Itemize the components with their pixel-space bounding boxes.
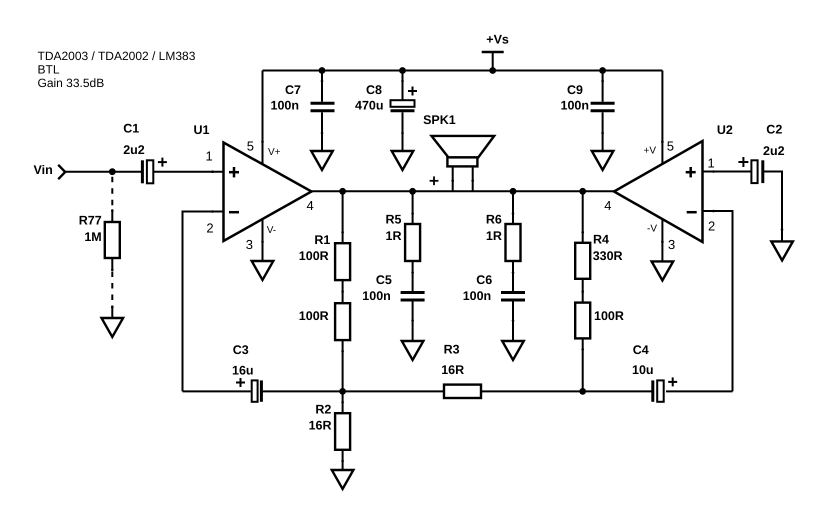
junction bottom right node bbox=[579, 388, 586, 395]
svg-text:BTL: BTL bbox=[38, 63, 60, 77]
svg-text:Gain 33.5dB: Gain 33.5dB bbox=[38, 76, 105, 90]
ground C7 bbox=[311, 151, 333, 170]
svg-text:100n: 100n bbox=[271, 98, 300, 112]
svg-text:R4: R4 bbox=[593, 233, 609, 247]
svg-text:100R: 100R bbox=[299, 309, 329, 323]
svg-text:4: 4 bbox=[307, 198, 314, 213]
svg-text:Vin: Vin bbox=[34, 163, 53, 177]
capacitor C5 100n bbox=[362, 273, 424, 341]
op-amp U1 bbox=[194, 123, 314, 252]
svg-text:U1: U1 bbox=[194, 123, 210, 137]
wire bottom mid-right bbox=[481, 390, 652, 392]
resistor 100R lower left bbox=[299, 280, 350, 391]
wire U1 pin3 stem bbox=[262, 219, 264, 261]
junction R5 top bbox=[409, 188, 416, 195]
svg-text:16R: 16R bbox=[441, 363, 464, 377]
capacitor C9 100n bbox=[561, 71, 615, 152]
wire top rail bbox=[263, 70, 663, 72]
capacitor C3 16u bbox=[232, 343, 261, 402]
ground R77 bbox=[102, 318, 124, 337]
svg-text:1R: 1R bbox=[486, 229, 502, 243]
junction C9 bbox=[599, 67, 606, 74]
wire U2 pin5 stem bbox=[661, 71, 663, 164]
resistor R2 16R bbox=[309, 391, 351, 470]
resistor R3 16R bbox=[441, 343, 481, 398]
svg-text:5: 5 bbox=[247, 138, 254, 153]
resistor 100R lower right bbox=[575, 279, 624, 392]
svg-text:R77: R77 bbox=[79, 213, 102, 227]
junction R4 top bbox=[579, 188, 586, 195]
op-amp U2 bbox=[604, 123, 733, 252]
capacitor C1 2u2 bbox=[123, 122, 167, 184]
junction bottom left node bbox=[339, 388, 346, 395]
svg-text:C1: C1 bbox=[123, 122, 139, 136]
wire C1 to U1 pin1 bbox=[154, 171, 224, 173]
svg-text:C9: C9 bbox=[567, 83, 583, 97]
svg-text:TDA2003 / TDA2002 / LM383: TDA2003 / TDA2002 / LM383 bbox=[38, 49, 196, 63]
wire U2 pin2 feedback bbox=[703, 211, 733, 391]
svg-text:+Vs: +Vs bbox=[486, 33, 509, 47]
ground C2 bbox=[771, 241, 793, 260]
capacitor C8 470u bbox=[355, 71, 417, 152]
ground R2 bbox=[332, 470, 354, 489]
svg-text:V+: V+ bbox=[268, 147, 281, 158]
svg-text:U2: U2 bbox=[717, 123, 733, 137]
capacitor C2 2u2 bbox=[738, 123, 784, 183]
svg-text:4: 4 bbox=[604, 198, 611, 213]
ground C6 bbox=[502, 341, 524, 360]
junction R6 top bbox=[510, 188, 517, 195]
svg-text:3: 3 bbox=[668, 237, 675, 252]
svg-text:SPK1: SPK1 bbox=[423, 113, 456, 127]
svg-text:2: 2 bbox=[708, 218, 715, 233]
svg-text:1M: 1M bbox=[84, 230, 101, 244]
svg-text:100R: 100R bbox=[594, 309, 624, 323]
wire bottom left bbox=[183, 390, 251, 392]
svg-text:470u: 470u bbox=[355, 98, 384, 112]
svg-text:10u: 10u bbox=[632, 363, 654, 377]
ground U2 pin3 bbox=[652, 261, 674, 280]
node Vin connector bbox=[34, 163, 66, 179]
svg-text:C3: C3 bbox=[233, 343, 249, 357]
wire U2 pin3 stem bbox=[661, 219, 663, 261]
svg-text:C7: C7 bbox=[285, 83, 301, 97]
svg-text:5: 5 bbox=[667, 138, 674, 153]
svg-text:16u: 16u bbox=[232, 363, 254, 377]
junction R1 top bbox=[339, 188, 346, 195]
svg-text:1: 1 bbox=[205, 149, 212, 164]
svg-text:R2: R2 bbox=[315, 403, 331, 417]
svg-text:100n: 100n bbox=[362, 289, 391, 303]
svg-text:1R: 1R bbox=[386, 229, 402, 243]
capacitor C7 100n bbox=[271, 71, 335, 152]
svg-text:2: 2 bbox=[206, 221, 213, 236]
svg-text:100n: 100n bbox=[463, 289, 492, 303]
svg-text:100n: 100n bbox=[561, 98, 590, 112]
title text block bbox=[38, 49, 196, 90]
speaker SPK1 bbox=[423, 113, 494, 191]
svg-text:2u2: 2u2 bbox=[123, 143, 145, 157]
wire bottom mid-left bbox=[263, 390, 444, 392]
resistor R6 1R bbox=[486, 191, 521, 291]
capacitor C4 10u bbox=[632, 343, 677, 402]
svg-text:V-: V- bbox=[267, 225, 276, 236]
junction C8 bbox=[399, 67, 406, 74]
ground C5 bbox=[402, 341, 424, 360]
svg-text:C8: C8 bbox=[366, 83, 382, 97]
wire U2 pin1 to C2 bbox=[703, 171, 752, 173]
resistor R5 1R bbox=[386, 191, 421, 291]
junction C7 bbox=[319, 67, 326, 74]
svg-text:C5: C5 bbox=[376, 273, 392, 287]
wire main output bus bbox=[312, 190, 615, 192]
svg-text:16R: 16R bbox=[309, 419, 332, 433]
resistor R77 1M bbox=[79, 177, 120, 318]
svg-text:100R: 100R bbox=[299, 249, 329, 263]
svg-text:C2: C2 bbox=[766, 123, 782, 137]
ground C9 bbox=[592, 151, 614, 170]
ground C8 bbox=[392, 151, 414, 170]
svg-text:C6: C6 bbox=[476, 273, 492, 287]
resistor R4 330R bbox=[575, 191, 622, 278]
junction +Vs bbox=[489, 67, 496, 74]
svg-text:2u2: 2u2 bbox=[763, 144, 785, 158]
svg-text:+V: +V bbox=[643, 146, 656, 157]
svg-text:-V: -V bbox=[647, 224, 657, 235]
svg-text:330R: 330R bbox=[593, 249, 623, 263]
svg-text:R5: R5 bbox=[386, 213, 402, 227]
svg-text:1: 1 bbox=[708, 156, 715, 171]
wire input bbox=[65, 171, 141, 173]
resistor R1 100R bbox=[299, 191, 350, 280]
svg-text:C4: C4 bbox=[633, 343, 649, 357]
svg-text:R3: R3 bbox=[444, 343, 460, 357]
capacitor C6 100n bbox=[463, 273, 525, 341]
svg-text:R1: R1 bbox=[314, 233, 330, 247]
wire U1 pin2 feedback bbox=[183, 212, 224, 392]
junction input node bbox=[109, 168, 116, 175]
svg-text:R6: R6 bbox=[486, 213, 502, 227]
wire C2 to ground bbox=[764, 172, 782, 242]
power symbol +Vs bbox=[482, 33, 509, 71]
ground U1 pin3 bbox=[252, 261, 274, 280]
wire bottom right bbox=[666, 390, 733, 392]
wire U1 pin5 stem bbox=[262, 71, 264, 164]
svg-text:3: 3 bbox=[246, 237, 253, 252]
